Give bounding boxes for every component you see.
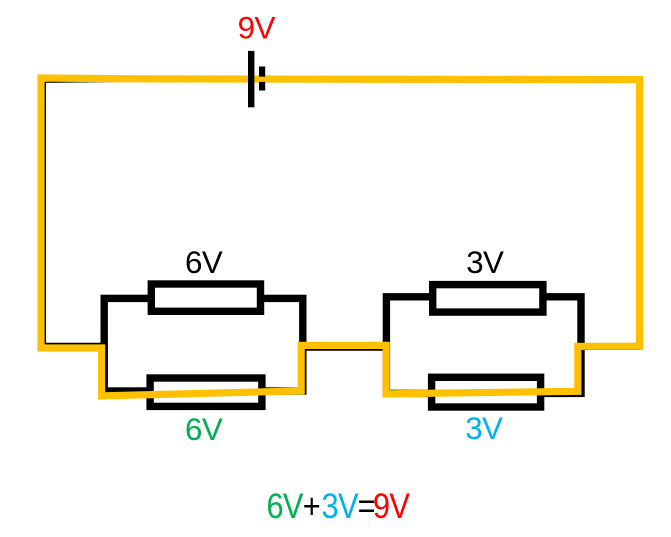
- resistor R4 bottom-right box: [432, 377, 541, 407]
- label equation 6V+3V=9V: [266, 486, 409, 525]
- battery B1 long plate: [248, 51, 254, 107]
- resistor R2 bottom-left box: [150, 378, 262, 406]
- wire: thin black right vertical wire: [638, 82, 640, 350]
- left pair outer loop: [104, 298, 303, 391]
- svg-text:9V: 9V: [238, 11, 276, 46]
- battery B1 short plate upper stub: [259, 67, 265, 77]
- svg-text:3V: 3V: [466, 245, 504, 280]
- wire: thin black top wire: [44, 80, 200, 82]
- battery B1 short plate lower stub: [259, 82, 265, 91]
- wire: thin black bridge wire between pairs: [302, 348, 387, 350]
- svg-text:6V+3V=9V: 6V+3V=9V: [266, 486, 409, 525]
- wire: thin black input wire to left pair: [44, 343, 106, 345]
- resistor R1 top-left box: [151, 284, 260, 311]
- svg-text:6V: 6V: [185, 245, 223, 280]
- wire: thin black left vertical wire: [44, 81, 46, 344]
- resistor R3 top-right box: [433, 285, 543, 313]
- wire: yellow highlighted current path: [41, 78, 640, 396]
- right pair outer loop: [386, 297, 581, 394]
- svg-text:6V: 6V: [185, 412, 223, 447]
- svg-text:3V: 3V: [465, 411, 503, 446]
- wire: thin black output wire to right vertical: [582, 348, 640, 350]
